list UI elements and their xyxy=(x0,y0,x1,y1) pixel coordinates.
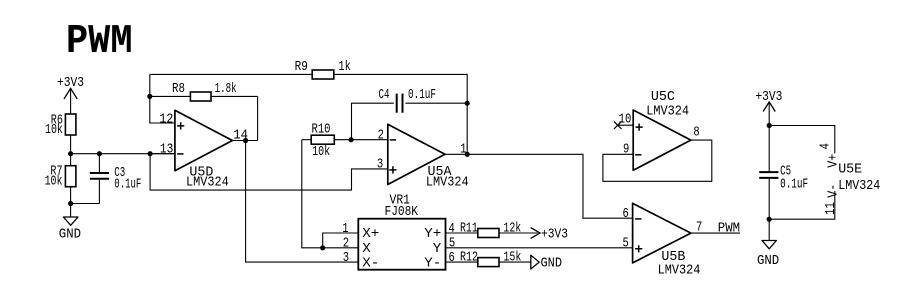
svg-text:R8: R8 xyxy=(172,82,185,97)
multiplier VR1 FJ08K xyxy=(342,193,455,271)
svg-text:1k: 1k xyxy=(338,60,350,75)
wire U5A output to U5B - xyxy=(445,154,633,218)
svg-text:15k: 15k xyxy=(503,250,521,265)
resistor R9 xyxy=(295,60,351,79)
wire R10 to VR1 X xyxy=(302,140,359,248)
svg-text:+3V3: +3V3 xyxy=(57,76,84,91)
svg-text:1.8k: 1.8k xyxy=(215,82,237,97)
power +3V3 (far right) xyxy=(755,90,782,111)
svg-text:Y: Y xyxy=(433,242,442,257)
wire R11 to +3V3 xyxy=(499,232,538,234)
svg-text:X-: X- xyxy=(362,257,379,272)
junction at C3 top xyxy=(97,151,102,156)
no-connect X on pin 10 xyxy=(614,121,622,129)
power +3V3 (left) xyxy=(57,76,84,114)
svg-text:X+: X+ xyxy=(362,227,379,242)
wire R6 to Vref rail xyxy=(70,135,72,154)
op-amp U5D xyxy=(159,110,248,190)
svg-text:8: 8 xyxy=(693,126,699,141)
wire top feedback right xyxy=(334,74,467,154)
svg-text:C4: C4 xyxy=(379,88,390,103)
junction at R6/R7 xyxy=(68,151,73,156)
op-amp U5A xyxy=(377,124,469,190)
node Vref rail xyxy=(71,153,175,155)
wire Vref to U5A + xyxy=(150,154,388,190)
svg-text:6: 6 xyxy=(449,251,455,266)
svg-text:PWM: PWM xyxy=(718,221,740,236)
svg-text:9: 9 xyxy=(623,142,629,157)
svg-text:10k: 10k xyxy=(45,174,63,189)
svg-text:LMV324: LMV324 xyxy=(186,176,229,191)
svg-text:1: 1 xyxy=(460,143,466,158)
ground GND (left) xyxy=(59,204,81,243)
junction U5D output branch xyxy=(243,138,248,143)
wire U5D output xyxy=(232,140,257,142)
svg-text:2: 2 xyxy=(378,129,384,144)
capacitor C5 xyxy=(759,164,808,192)
junction bottom node xyxy=(68,201,73,206)
junction R8 left xyxy=(147,94,152,99)
junction R10/C4/pin2 xyxy=(349,137,354,142)
svg-text:R12: R12 xyxy=(460,250,478,265)
resistor R6 xyxy=(45,114,76,139)
wire U5D output to VR1 X- xyxy=(246,141,359,263)
svg-text:X: X xyxy=(362,242,371,257)
capacitor C4 xyxy=(352,88,468,140)
wire R8 right to output xyxy=(257,96,259,140)
svg-text:6: 6 xyxy=(623,207,629,222)
svg-text:Y+: Y+ xyxy=(424,227,441,242)
svg-text:1: 1 xyxy=(342,222,348,237)
junction Vref branch xyxy=(148,151,153,156)
svg-text:LMV324: LMV324 xyxy=(658,264,701,279)
wire bottom node xyxy=(71,203,100,205)
junction U5A output xyxy=(465,152,470,157)
svg-text:Y-: Y- xyxy=(424,257,441,272)
svg-text:LMV324: LMV324 xyxy=(646,105,689,120)
svg-text:10k: 10k xyxy=(45,123,63,138)
junction C4 right xyxy=(465,101,470,106)
svg-text:LMV324: LMV324 xyxy=(838,179,880,194)
wire pin12 feedback vertical xyxy=(150,74,175,123)
svg-text:LMV324: LMV324 xyxy=(426,175,469,190)
svg-text:+3V3: +3V3 xyxy=(541,227,568,242)
op-amp U5B xyxy=(623,203,703,278)
wire VR1 pin6 xyxy=(446,261,478,263)
wire to U5E V- pin 11 xyxy=(769,191,835,219)
svg-text:5: 5 xyxy=(449,237,455,252)
resistor R11 xyxy=(460,222,521,238)
junction VR1 X+/X tie xyxy=(320,245,325,250)
op-amp U5C xyxy=(619,90,700,170)
wire C5 to GND node xyxy=(768,179,770,219)
junction V- branch xyxy=(767,217,772,222)
ground GND (far right) xyxy=(757,219,779,269)
svg-text:11: 11 xyxy=(824,202,839,215)
capacitor C3 xyxy=(90,154,142,204)
resistor R8 xyxy=(150,82,258,101)
wire pin13 from rail xyxy=(150,153,175,155)
svg-text:12k: 12k xyxy=(503,222,521,237)
svg-text:GND: GND xyxy=(59,227,81,242)
wire VR1 pin4 xyxy=(446,232,478,234)
svg-text:2: 2 xyxy=(343,237,349,252)
wire top feedback left xyxy=(150,73,312,75)
svg-text:R9: R9 xyxy=(295,60,308,75)
svg-text:FJ08K: FJ08K xyxy=(385,205,419,220)
wire to U5E V+ pin 4 xyxy=(769,126,835,154)
svg-text:13: 13 xyxy=(160,142,173,157)
resistor R12 xyxy=(460,250,521,266)
wire pin2 xyxy=(351,139,388,141)
svg-text:10k: 10k xyxy=(312,145,330,160)
svg-text:0.1uF: 0.1uF xyxy=(114,177,141,192)
svg-text:U5C: U5C xyxy=(651,90,675,105)
svg-text:12: 12 xyxy=(159,112,173,127)
junction V+ branch xyxy=(767,123,772,128)
resistor R10 xyxy=(302,123,351,161)
svg-text:R10: R10 xyxy=(312,123,331,138)
svg-text:0.1uF: 0.1uF xyxy=(408,88,436,103)
svg-text:PWM: PWM xyxy=(66,19,133,65)
svg-text:U5E: U5E xyxy=(838,163,862,178)
svg-text:0.1uF: 0.1uF xyxy=(780,177,808,192)
wire VR1 pin5 to U5B + xyxy=(446,247,633,249)
svg-text:4: 4 xyxy=(818,143,833,149)
svg-text:3: 3 xyxy=(343,251,349,266)
wire R12 to GND xyxy=(499,261,531,263)
svg-text:5: 5 xyxy=(623,237,629,252)
wire +3V3 down to C5 xyxy=(768,102,770,172)
resistor R7 xyxy=(45,154,76,204)
svg-text:3: 3 xyxy=(377,157,383,172)
svg-text:GND: GND xyxy=(541,256,563,271)
svg-text:4: 4 xyxy=(449,222,455,237)
svg-text:GND: GND xyxy=(757,254,779,269)
wire U5B output PWM xyxy=(691,232,740,234)
wire U5C feedback loop xyxy=(603,140,712,181)
wire U5C pin10 stub xyxy=(617,124,634,126)
wire VR1 X+ tie xyxy=(323,233,359,248)
svg-text:R11: R11 xyxy=(460,222,478,237)
ground GND (right arrow) xyxy=(531,255,562,271)
power +3V3 (right arrow) xyxy=(531,227,568,242)
